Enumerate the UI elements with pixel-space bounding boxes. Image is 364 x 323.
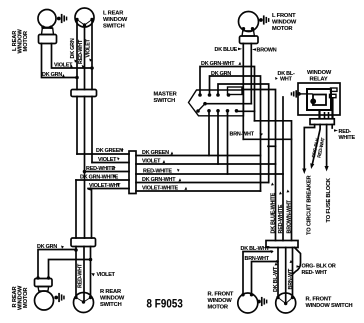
label: R REAR WINDOW MOTOR (rotated) — [12, 285, 29, 310]
row1 left wire DK GREEN — [77, 153, 129, 155]
MS bottom terminal dots — [207, 109, 211, 113]
junction dot VIOLET at x92 — [90, 66, 94, 70]
svg-text:DK GRN-WHITE: DK GRN-WHITE — [80, 174, 119, 180]
wire: C3 to S3 left — [277, 248, 279, 298]
motor M2 brushes — [54, 293, 64, 302]
svg-text:R. FRONT: R. FRONT — [208, 292, 234, 298]
svg-text:R. FRONT: R. FRONT — [306, 297, 332, 303]
short jog wire between V268.7 and V275.5 — [268, 145, 276, 147]
arrow on dk grn horizontal wire — [62, 74, 65, 77]
motor M4 brushes — [257, 297, 267, 306]
svg-text:R REAR: R REAR — [100, 289, 121, 295]
wire: x76 row4 down to C2 — [75, 180, 77, 238]
wire: C3 to S3 right — [292, 248, 294, 298]
arrow on VIOLET wire — [89, 59, 92, 62]
svg-text:WHITE: WHITE — [339, 135, 356, 141]
switch S1 (L rear window switch) — [75, 8, 94, 27]
wire: x91.5 row5 down to C2 — [91, 189, 93, 239]
wire: M3 left lead DK BLUE down — [242, 44, 244, 140]
junction dot DK GRN — [74, 248, 78, 252]
relay terminal symbol (bars + dot) — [291, 90, 301, 97]
label: L REAR WINDOW SWITCH — [103, 11, 128, 30]
connector bar CB (vertical) — [129, 151, 136, 194]
svg-text:TO CIRCUIT BREAKER: TO CIRCUIT BREAKER — [307, 176, 313, 235]
wire: M3 right lead BROWN down — [250, 44, 252, 104]
svg-text:8 F9053: 8 F9053 — [147, 298, 183, 311]
svg-text:BRN-WT: BRN-WT — [288, 268, 294, 290]
svg-text:DK BL-WHT: DK BL-WHT — [241, 246, 271, 252]
svg-text:WINDOW: WINDOW — [103, 17, 128, 23]
svg-text:WINDOW SWITCH: WINDOW SWITCH — [306, 303, 353, 309]
motor M1 (L rear window motor) — [38, 10, 57, 44]
wire: motor M1 right lead down (VIOLET) — [52, 44, 93, 69]
junction dot DK GRN at x77 — [75, 76, 79, 80]
svg-text:WINDOW: WINDOW — [208, 298, 233, 304]
svg-text:VIOLET: VIOLET — [86, 38, 92, 57]
arrow on RED-WHT wire — [82, 65, 85, 68]
svg-text:VIOLET: VIOLET — [97, 272, 116, 278]
motor M3 (L front window motor) — [239, 12, 259, 44]
svg-text:WHT: WHT — [280, 77, 293, 83]
wire H_G: MS bottom dot4 right then down — [237, 110, 255, 112]
connector C2 (R rear) — [71, 238, 96, 247]
svg-text:MOTOR: MOTOR — [272, 26, 292, 32]
wire H_D from inner box to long vertical V275 — [242, 90, 276, 241]
svg-text:MASTER: MASTER — [154, 92, 177, 98]
svg-text:RED-WHITE: RED-WHITE — [86, 166, 115, 172]
svg-text:BROWN: BROWN — [257, 48, 277, 54]
junction dot on row3 — [83, 170, 87, 174]
row3 left wire RED-WHITE — [84, 171, 129, 173]
wire: x92 from C1 to row2 — [91, 97, 93, 163]
wire: C3 to S3 center — [285, 248, 287, 304]
wire: motor M1 left lead down (DK GRN) — [42, 44, 78, 78]
wire: x77 from C1 to row1 — [76, 97, 78, 155]
svg-text:DK GRN: DK GRN — [37, 244, 57, 250]
row1 right wire DK GREEN — [136, 155, 261, 157]
row3 right wire RED-WHITE — [136, 173, 283, 175]
wire H_H: BRN-WHT — [243, 138, 291, 140]
arrow on violet horizontal wire — [70, 65, 73, 68]
arrow above DK BL-WT label — [275, 263, 278, 266]
wire: MS bottom dot2 to row2 — [217, 111, 219, 164]
wire to circuit breaker (L-shape + arrowhead) — [304, 125, 314, 170]
svg-text:WINDOW: WINDOW — [100, 296, 125, 302]
MS diagonal to bottom-left dot — [198, 104, 205, 111]
wire H_B: DK GRN from MS dot2 — [210, 76, 261, 191]
MS middle dot + wire H_F — [203, 102, 207, 106]
svg-text:DK BLUE: DK BLUE — [215, 47, 238, 53]
svg-text:L REAR: L REAR — [103, 11, 123, 17]
wire ORG-BLK OR RED-WHT (diagonal + arrowhead) — [312, 125, 320, 165]
wire: BRN-WHT horizontal to motor M4 — [252, 262, 278, 294]
wire H_I: over to long vertical V3 (BROWN-WHT) — [255, 121, 292, 241]
arrow above BRN-WT label — [290, 260, 293, 263]
connector C1 (L rear) — [71, 90, 97, 97]
MS top terminal dots — [198, 93, 202, 97]
stub to RED-WHITE — [331, 125, 333, 129]
svg-text:VIOLET: VIOLET — [142, 159, 161, 165]
relay K1 outer box — [298, 83, 340, 115]
label: MASTER SWITCH — [154, 92, 177, 105]
svg-text:SWITCH: SWITCH — [100, 302, 122, 308]
svg-text:VIOLET-WHITE: VIOLET-WHITE — [142, 185, 179, 191]
row4 right wire DK GRN-WHT — [136, 182, 268, 184]
label: R FRONT WINDOW SWITCH — [306, 297, 353, 310]
wire: MS bottom dot1 to row1 — [208, 111, 210, 156]
inner box at MS top right — [228, 87, 243, 95]
motor M1 brushes — [57, 14, 67, 23]
svg-text:DK GRN: DK GRN — [70, 38, 76, 58]
long vertical V2 RED-WHITE — [282, 97, 284, 241]
svg-text:RED-WHT: RED-WHT — [78, 263, 84, 288]
svg-text:RED-WHITE: RED-WHITE — [278, 204, 284, 233]
svg-text:ORG- BLK OR: ORG- BLK OR — [302, 263, 336, 269]
svg-text:DK GREEN: DK GREEN — [142, 150, 169, 156]
wire to fuse block + arrowhead — [326, 125, 328, 167]
svg-text:BROWN-WHT: BROWN-WHT — [286, 199, 292, 233]
svg-text:BRN-WHT: BRN-WHT — [245, 256, 270, 262]
wire: VIOLET horizontal to motor M2 — [49, 260, 91, 279]
wire: x84 C2 to switch S2 center — [83, 247, 85, 303]
wire: x76 C2 to switch S2 left — [75, 247, 77, 298]
row2 right wire VIOLET — [136, 163, 276, 165]
label: L FRONT WINDOW MOTOR — [272, 13, 297, 32]
svg-text:DK BL-WT: DK BL-WT — [273, 266, 279, 292]
svg-text:WINDOW: WINDOW — [272, 20, 297, 26]
svg-text:DK GRN-WHT: DK GRN-WHT — [142, 177, 176, 183]
svg-text:WINDOW: WINDOW — [307, 70, 332, 76]
row5 left wire VIOLET-WHT — [88, 188, 129, 190]
wire H_C from MS dot3 — [218, 84, 269, 183]
connector C3 (R front) — [266, 241, 298, 248]
svg-text:DK BLUE-WHITE: DK BLUE-WHITE — [270, 192, 276, 233]
svg-text:DK GRN: DK GRN — [42, 72, 62, 78]
row4 left wire DK GRN-WHITE — [76, 179, 129, 181]
row5 right wire VIOLET-WHITE — [136, 190, 261, 192]
svg-text:TO FUSE BLOCK: TO FUSE BLOCK — [326, 177, 332, 222]
wire: switch S1 leg DK GRN (x77) — [76, 20, 78, 90]
svg-text:RELAY: RELAY — [310, 76, 328, 82]
svg-text:L FRONT: L FRONT — [272, 13, 296, 19]
arrow on DK GRN wire — [74, 60, 77, 63]
wire: MS bottom dot3 to row3 — [227, 111, 229, 174]
svg-text:DK GREEN: DK GREEN — [96, 148, 123, 154]
label: R FRONT WINDOW MOTOR — [208, 292, 234, 311]
svg-text:MOTOR: MOTOR — [208, 305, 228, 311]
svg-text:RED- WHT: RED- WHT — [302, 270, 328, 276]
svg-text:RED-WHT: RED-WHT — [78, 39, 84, 64]
wire H_A: DK GRN-WHT from MS dot1 — [200, 67, 255, 121]
label: R REAR WINDOW SWITCH — [100, 289, 125, 308]
motor M3 brushes — [259, 15, 269, 24]
switch S2 (R rear window switch) — [74, 293, 94, 313]
svg-text:MOTOR: MOTOR — [23, 31, 29, 51]
wire: x90.5 C2 to switch S2 right — [90, 247, 92, 298]
row2 left wire VIOLET — [92, 162, 129, 164]
master switch U1 outline — [189, 90, 244, 116]
junction dot VIOLET — [89, 258, 93, 262]
svg-text:SWITCH: SWITCH — [154, 98, 176, 104]
svg-text:BRN-WHT: BRN-WHT — [230, 131, 255, 137]
relay internals — [299, 88, 337, 119]
relay connector C4 — [310, 119, 334, 125]
svg-text:MOTOR: MOTOR — [23, 288, 29, 308]
wire: DK GRN horizontal to motor M2 — [38, 250, 76, 279]
wire: C3 right bend (ORG-BLK) — [293, 248, 301, 275]
label: WINDOW RELAY — [307, 70, 332, 83]
motor M4 (R front window motor) — [238, 293, 258, 313]
label: L REAR WINDOW MOTOR (rotated) — [12, 29, 29, 54]
svg-text:VIOLET: VIOLET — [98, 157, 117, 163]
svg-text:SWITCH: SWITCH — [103, 24, 125, 30]
wire: x84.5 from C1 to row3 (continues to C2 below) — [84, 97, 86, 239]
wire: DK BL-WHT horizontal to motor M4 — [243, 252, 272, 294]
switch S3 (R front window switch) — [276, 293, 296, 313]
svg-text:VIOLET-WHT: VIOLET-WHT — [89, 183, 121, 189]
motor M2 (R rear window motor) — [35, 276, 54, 310]
wire: switch S1 leg RED-WHT (x84.5) — [84, 25, 86, 90]
svg-text:RED-WHITE: RED-WHITE — [143, 168, 172, 174]
arrow at left end of row5 — [88, 187, 91, 191]
wire: switch S1 leg VIOLET (x92) — [91, 20, 93, 90]
